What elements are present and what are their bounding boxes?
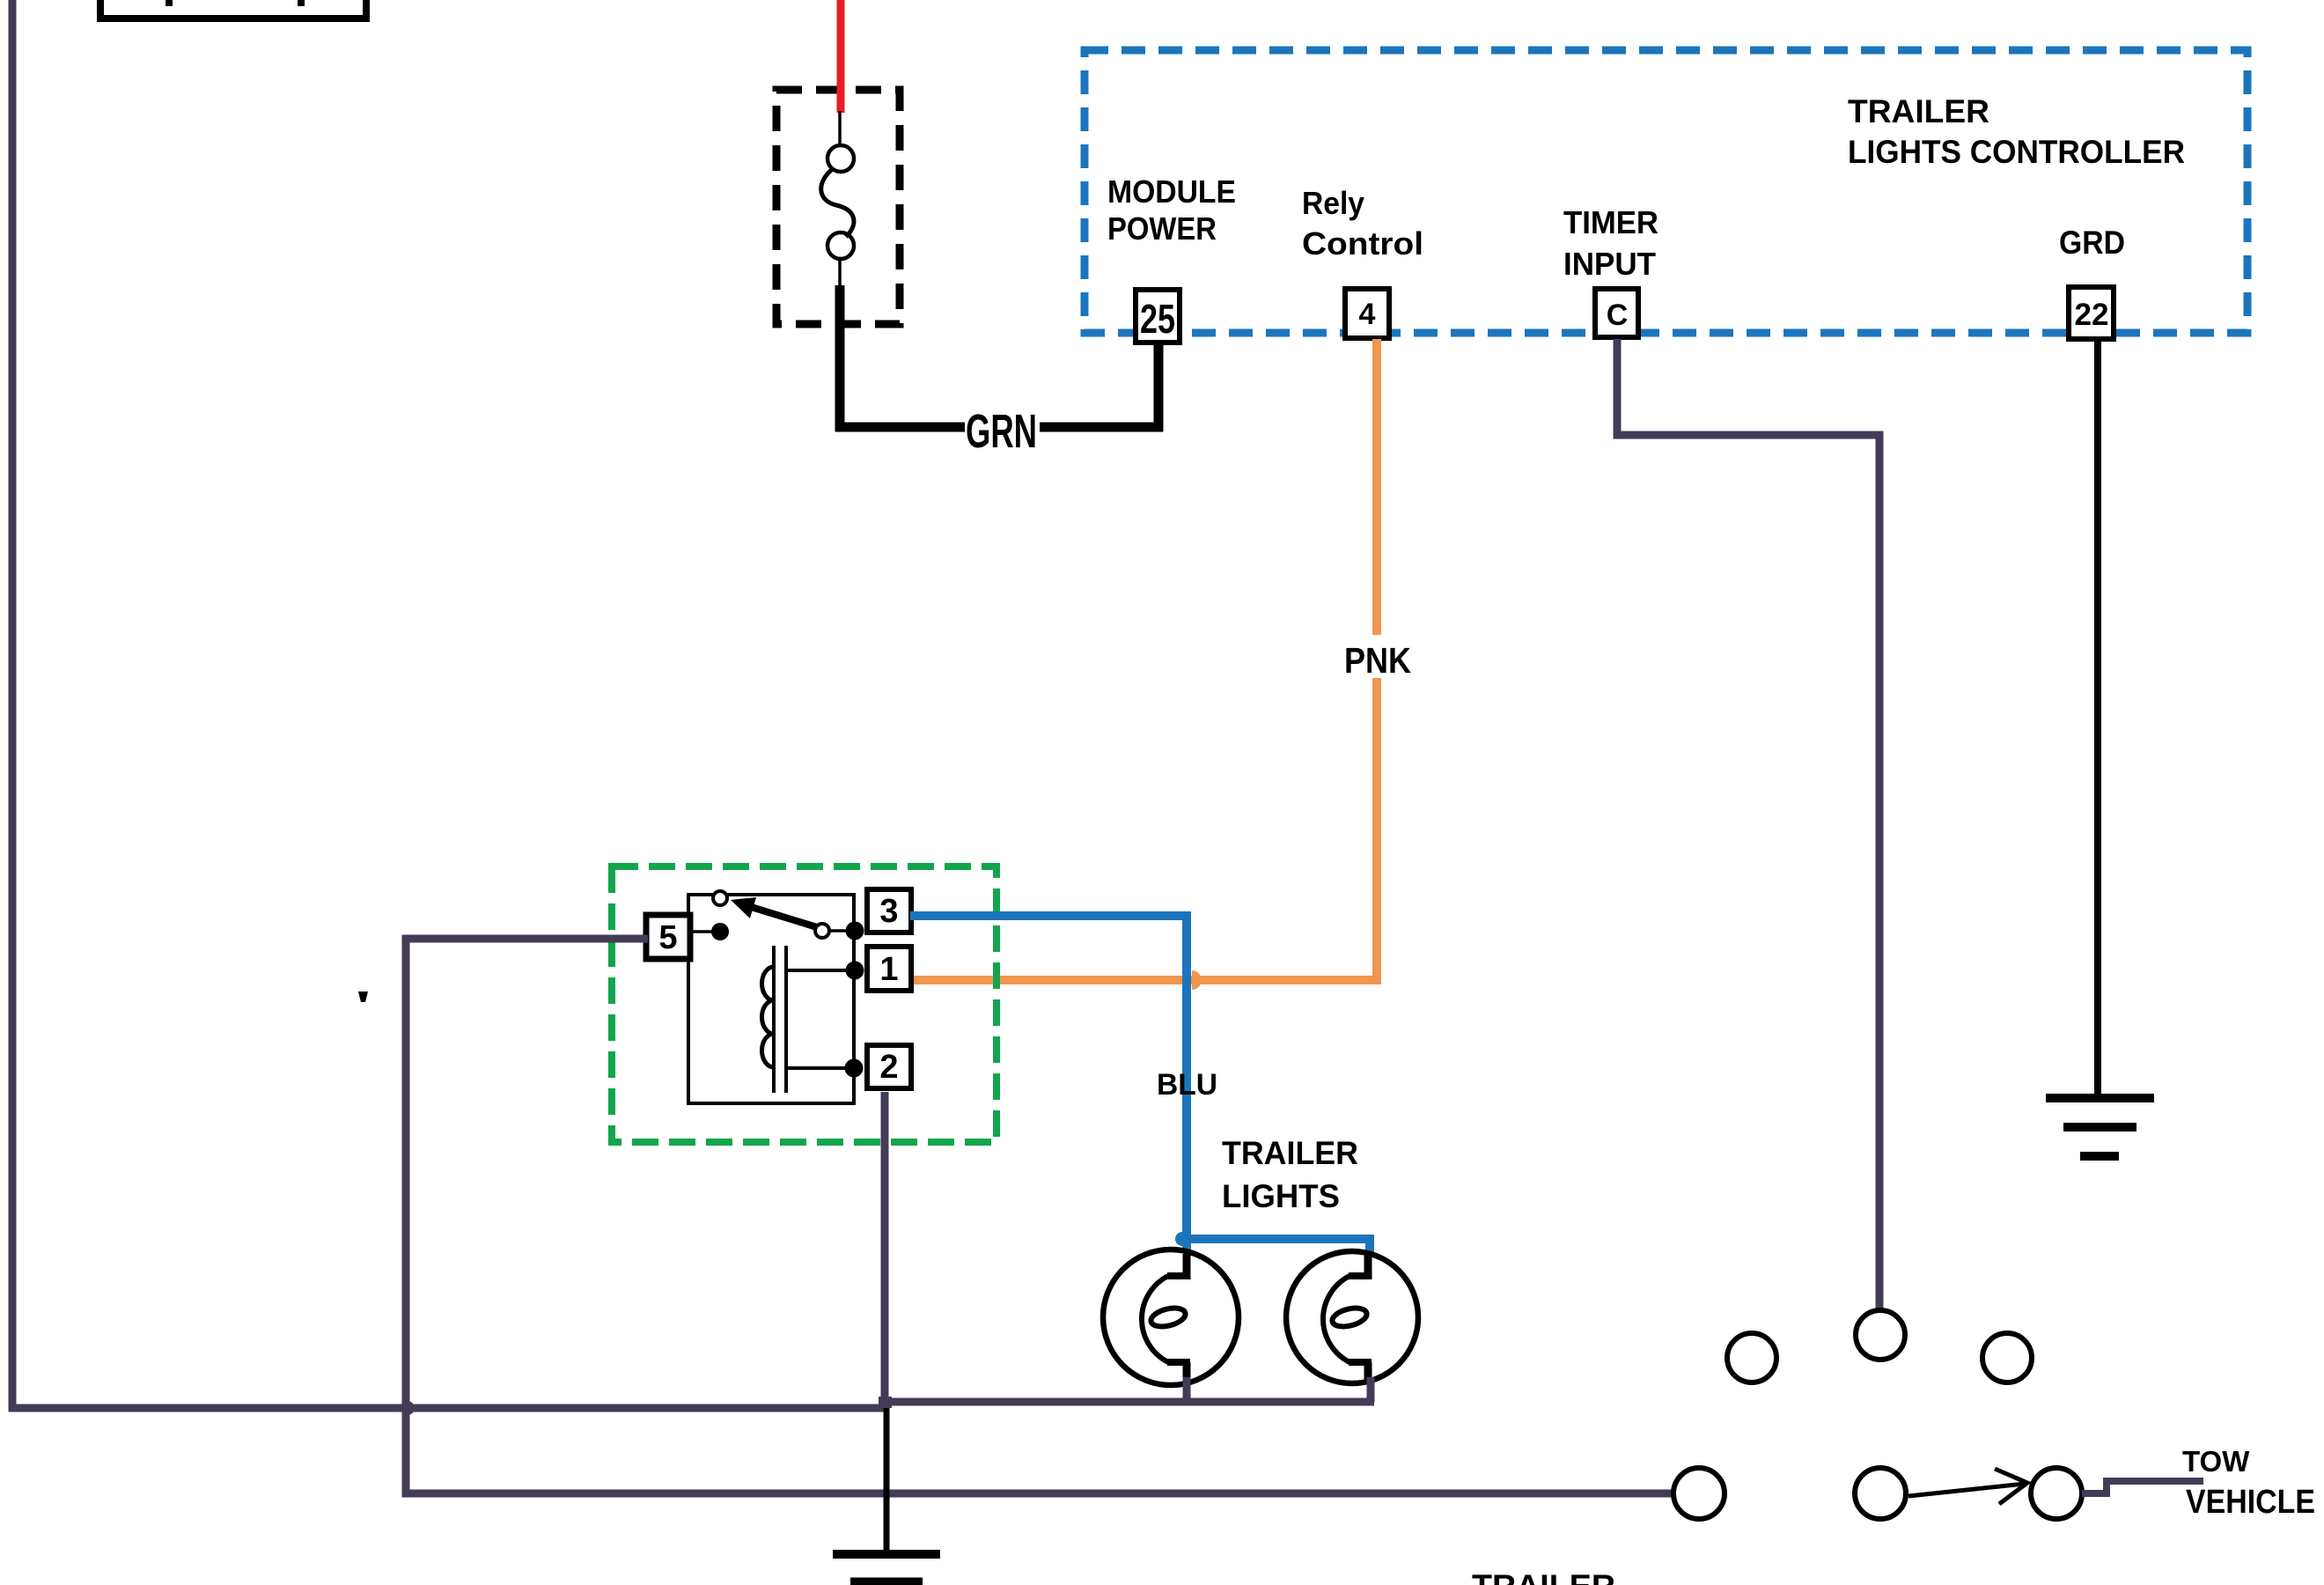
wire: GRN segment left: [835, 423, 965, 432]
wire: ground node stub (black): [884, 1408, 890, 1551]
ground symbol G2 (trailer ground, clipped at bottom): [833, 1550, 940, 1559]
trailer connector pin (left spare): [1727, 1333, 1776, 1382]
wire: relay pin 3 to trailer lights (blue): [910, 916, 1187, 1252]
lamp L1 filament loop: [1149, 1305, 1187, 1330]
svg-text:1: 1: [879, 951, 898, 988]
relay pin3 node dot: [846, 922, 864, 940]
pin 4 terminal box: [1345, 289, 1389, 338]
svg-text:BLU: BLU: [1157, 1068, 1217, 1102]
fuse F1 top circle: [827, 145, 854, 172]
relay pin 2 box: [867, 1045, 911, 1088]
fuse F1 S-element: [821, 168, 854, 237]
svg-text:2: 2: [879, 1049, 898, 1086]
relay coil top connector to pin 1: [786, 969, 855, 972]
relay link pivot to pin3 dot: [830, 929, 847, 933]
svg-text:MODULE: MODULE: [1107, 173, 1236, 210]
lamp L2 top lead: [1364, 1254, 1372, 1279]
wire: left border ground return (vertical): [9, 0, 17, 1412]
relay pin2 node dot: [845, 1059, 864, 1078]
relay switch arm pivot circle: [815, 924, 829, 938]
fuse F1 dashed enclosure: [776, 90, 900, 324]
svg-text:POWER: POWER: [1107, 210, 1217, 247]
relay pin 3 box: [867, 889, 911, 933]
svg-text:INPUT: INPUT: [1563, 246, 1656, 282]
wire: to tow vehicle (purple): [2082, 1481, 2203, 1493]
wire: Rely Control (orange) from pin 4, upper run: [1372, 339, 1381, 635]
relay pin 5 box: [646, 915, 690, 959]
junction square at ground node: [879, 1397, 892, 1408]
svg-text:LIGHTS: LIGHTS: [1222, 1178, 1340, 1214]
wire: riser to pin 25: [1154, 337, 1164, 431]
fuse F1 bottom circle: [827, 232, 854, 259]
relay coil bottom connector to pin 2: [786, 1066, 854, 1070]
svg-text:GRD: GRD: [2059, 225, 2125, 261]
wire: relay pin 2 down to ground node (purple): [881, 1092, 889, 1406]
pin 25 terminal box: [1136, 290, 1180, 343]
svg-text:Rely: Rely: [1302, 185, 1364, 221]
lamp L2 bottom lead: [1349, 1359, 1372, 1366]
svg-text:5: 5: [658, 919, 677, 956]
relay coil core lines: [772, 946, 776, 1093]
relay common contact dot (pin 5): [711, 923, 729, 940]
stray mark (apostrophe): [358, 992, 368, 1002]
wire: bottom horizontal ground return left segment: [9, 1404, 885, 1412]
trailer connector pin (pin5 feed): [1673, 1468, 1725, 1519]
svg-text:GRN: GRN: [966, 405, 1037, 458]
svg-text:Control: Control: [1302, 225, 1423, 262]
connector mating arrow: [1908, 1484, 2025, 1496]
wire: fuse output (black) vertical: [835, 285, 845, 431]
trailer connector pin (mating left): [1855, 1468, 1906, 1519]
trailer lights controller U1 dashed box: [1085, 50, 2247, 333]
wire: relay pin 5 to trailer connector (purple): [406, 939, 1673, 1493]
svg-text:VEHICLE: VEHICLE: [2186, 1484, 2315, 1521]
wire: battery feed (red): [837, 0, 845, 113]
pin stub b: [298, 0, 305, 6]
wire: GRN segment right: [1040, 423, 1163, 432]
relay coil winding arcs: [762, 967, 774, 1067]
wire: Rely Control (orange) lower run to relay pin 1: [910, 678, 1377, 980]
relay NC contact circle: [713, 891, 727, 905]
relay K1 body: [688, 895, 854, 1103]
orange hop bump over blue wire: [1192, 970, 1202, 990]
trailer connector pin (right spare): [1982, 1333, 2032, 1382]
svg-text:25: 25: [1140, 296, 1175, 342]
svg-text:TRAILER: TRAILER: [1848, 93, 1989, 129]
svg-text:TIMER: TIMER: [1563, 204, 1658, 240]
junction dot (ground return / pin5 wire crossing): [401, 1401, 415, 1415]
relay pin1 node dot: [846, 962, 864, 980]
svg-text:22: 22: [2075, 298, 2109, 332]
svg-text:3: 3: [879, 893, 898, 930]
connector block J1 (cut off at top): [100, 0, 366, 18]
relay pin 1 box: [867, 947, 911, 991]
lamp L1 (left trailer light) envelope: [1103, 1250, 1239, 1385]
wire: GRD (black) from pin 22: [2094, 339, 2101, 1098]
trailer connector pin (mating right): [2031, 1468, 2082, 1519]
ground symbol G1 (under pin 22): [2046, 1094, 2154, 1102]
svg-text:TRAILER: TRAILER: [1222, 1135, 1358, 1171]
lamp L2 filament arc: [1323, 1276, 1350, 1362]
blue branch bump: [1175, 1232, 1182, 1246]
wire: bottom horizontal ground return right segment: [885, 1398, 1374, 1406]
svg-text:PNK: PNK: [1344, 640, 1411, 681]
lamp L1 bottom lead: [1167, 1359, 1190, 1366]
lamp L2 filament loop: [1330, 1305, 1368, 1330]
pin 22 terminal box: [2069, 287, 2114, 339]
wire: L1 to ground return (purple): [1183, 1377, 1191, 1404]
pin stub a: [165, 0, 173, 6]
relay K1 dashed enclosure (green): [612, 866, 997, 1142]
svg-text:TRAILER: TRAILER: [1472, 1568, 1615, 1585]
relay link pin5-box to dot: [690, 930, 713, 933]
svg-text:TOW: TOW: [2182, 1445, 2250, 1478]
svg-text:LIGHTS CONTROLLER: LIGHTS CONTROLLER: [1848, 134, 2185, 170]
fuse F1 bottom lead: [838, 259, 842, 289]
lamp L2 (right trailer light) envelope: [1286, 1251, 1418, 1383]
wire: TIMER INPUT (purple) from pin C: [1617, 339, 1879, 1309]
wire: blue branch to right bulb: [1187, 1239, 1370, 1254]
wire: L2 to ground return (purple): [1367, 1377, 1375, 1402]
relay switch arm arrowhead: [731, 897, 756, 918]
lamp L1 top lead: [1183, 1254, 1191, 1279]
svg-text:C: C: [1607, 299, 1629, 332]
fuse F1 top lead: [838, 111, 842, 145]
relay switch arm: [748, 906, 817, 927]
trailer connector pin (timer input): [1856, 1310, 1905, 1360]
pin C terminal box: [1595, 289, 1638, 337]
lamp L1 filament arc: [1142, 1276, 1168, 1362]
svg-text:4: 4: [1359, 298, 1376, 331]
